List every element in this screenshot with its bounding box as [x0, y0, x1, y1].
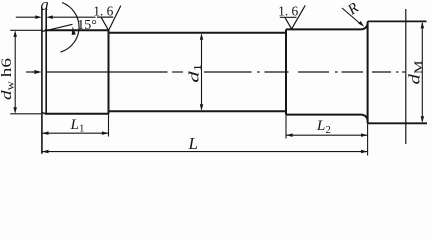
svg-text:1. 6: 1. 6 — [278, 4, 298, 19]
wire: L1 extension line (step 1) — [108, 114, 110, 137]
wire: dM dimension line — [421, 23, 423, 122]
wire: axis arrow into end face — [26, 71, 37, 73]
wire: top chamfer slope — [42, 30, 46, 31]
wire: hub break line (right edge) — [405, 9, 407, 144]
wire: hub top outline — [368, 20, 427, 22]
wire: L2 extension line (hub face) — [367, 123, 369, 155]
node surface finish mark 1.6 (step 1) — [97, 6, 121, 31]
wire: left journal bottom outline — [45, 113, 109, 115]
svg-text:15°: 15° — [77, 18, 97, 33]
wire: dimension a line right tail — [46, 15, 53, 19]
wire: middle section bottom outline — [109, 110, 287, 112]
wire: chamfer edge vertical — [45, 9, 47, 114]
wire: dw dimension line — [14, 33, 16, 111]
wire: hub left face — [367, 21, 369, 123]
wire: shaft end face (left) — [41, 9, 43, 154]
wire: d1 dimension line — [201, 35, 203, 110]
wire: chamfer angle arc — [61, 3, 80, 53]
wire: R leader line — [342, 8, 360, 24]
wire: shoulder step 2 — [285, 29, 287, 114]
wire: left journal top outline — [45, 29, 109, 31]
wire: bottom chamfer slope — [42, 113, 46, 114]
wire: shaft centerline (dash-dot axis) — [47, 71, 406, 73]
wire: dimension a line left tail — [16, 16, 36, 18]
wire: bottom fillet into hub — [361, 115, 368, 121]
svg-text:dw h6: dw h6 — [0, 57, 17, 100]
wire: dw top extension line — [10, 29, 42, 31]
wire: L1 dimension line — [42, 132, 109, 134]
wire: middle section top outline — [109, 32, 287, 34]
wire: dw bottom extension line — [10, 113, 42, 115]
svg-text:L: L — [187, 134, 197, 153]
wire: third section top outline — [286, 28, 361, 30]
svg-text:a: a — [40, 0, 48, 14]
wire: chamfer angle arc arrowhead — [72, 27, 76, 35]
node surface finish mark 1.6 (step 2) — [280, 5, 305, 29]
wire: 15 deg chamfer line — [46, 24, 72, 30]
wire: top fillet into hub — [361, 24, 368, 30]
wire: L2 dimension line — [286, 134, 368, 136]
wire: L dimension line — [42, 151, 368, 153]
svg-text:1. 6: 1. 6 — [93, 4, 113, 19]
wire: shoulder step 1 — [108, 30, 110, 114]
wire: third section bottom outline — [286, 114, 361, 116]
wire: L2 extension line (step 2) — [285, 115, 287, 139]
wire: hub bottom outline — [368, 122, 427, 124]
